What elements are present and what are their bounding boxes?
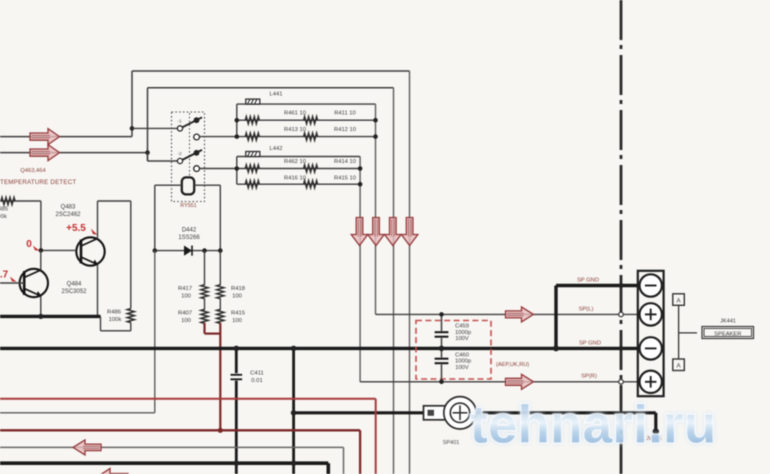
wire Q483 emitter xyxy=(97,265,99,317)
svg-text:R486: R486 xyxy=(107,310,122,316)
svg-text:SP GND: SP GND xyxy=(577,278,599,284)
svg-text:100: 100 xyxy=(181,294,192,300)
speaker SP401 xyxy=(424,397,477,429)
wire L441 top rail xyxy=(237,104,376,314)
svg-text:L442: L442 xyxy=(270,146,283,152)
wire SP GND bus thick xyxy=(0,347,639,350)
watermark tehnari.ru xyxy=(470,396,716,455)
wire speaker branch thick xyxy=(294,348,424,474)
node chain to red bus xyxy=(218,428,223,433)
node L442 A1 xyxy=(235,166,240,171)
wire rail 1 top xyxy=(132,71,410,474)
label D442 1SS266 xyxy=(178,228,200,242)
wire L442 top rail xyxy=(237,157,360,382)
label RY551 xyxy=(180,203,196,209)
svg-text:Q484: Q484 xyxy=(67,282,82,288)
terminal 4 plus xyxy=(640,371,662,393)
svg-text:100: 100 xyxy=(232,318,243,324)
svg-text:L441: L441 xyxy=(270,92,283,98)
svg-text:R417: R417 xyxy=(178,286,192,292)
node C460 bottom xyxy=(439,380,444,385)
label Q483 2SC2462 xyxy=(55,205,81,219)
node D442 left xyxy=(153,248,158,253)
node C459 top xyxy=(439,312,444,317)
svg-text:100: 100 xyxy=(232,294,243,300)
svg-text:Q483: Q483 xyxy=(61,205,76,211)
label Q484 2SC3052 xyxy=(61,282,87,296)
svg-text:C411: C411 xyxy=(250,371,264,377)
resistor R414 10 xyxy=(304,159,356,172)
svg-text:-1: -1 xyxy=(177,119,182,125)
svg-text:R461 10: R461 10 xyxy=(284,111,306,117)
wire key link xyxy=(679,305,697,359)
resistor R415 100 xyxy=(217,309,246,324)
wire L441 row1 xyxy=(237,119,376,121)
node junction rail2/input xyxy=(145,150,150,155)
wire SP(L) xyxy=(376,313,639,315)
arrow bus 3 left xyxy=(73,440,101,455)
resistor R462 10 xyxy=(245,159,306,172)
board boundary dashed line xyxy=(620,0,623,474)
arrow connector pin 3 down xyxy=(385,218,402,246)
svg-text:(AEP,UK,RU): (AEP,UK,RU) xyxy=(496,362,529,368)
label JW401 xyxy=(646,436,662,442)
transistor Q483 2SC2462 xyxy=(76,237,104,265)
wire Q483 base xyxy=(41,201,75,250)
label TEMPERATURE DETECT xyxy=(0,179,76,186)
node L441 B2 xyxy=(373,134,378,139)
wire input L (from amplifier) xyxy=(0,136,132,138)
arrow connector pin 1 down xyxy=(351,218,368,246)
svg-text:R414 10: R414 10 xyxy=(334,159,356,165)
relay RY551 dashed box xyxy=(172,112,205,202)
svg-text:100k: 100k xyxy=(0,214,7,220)
node crossing t2 xyxy=(619,312,624,317)
wire chain right top xyxy=(219,251,221,286)
label AEP UK RU xyxy=(496,362,529,368)
svg-text:R462 10: R462 10 xyxy=(284,159,306,165)
svg-text:SP401: SP401 xyxy=(443,440,460,446)
svg-text:tehnari.ru: tehnari.ru xyxy=(470,396,716,455)
svg-text:C460: C460 xyxy=(455,352,469,358)
wire relay coil left pin xyxy=(155,185,182,250)
wire C411 branch xyxy=(235,348,238,474)
wire SP GND terminal 1 thick xyxy=(556,286,639,349)
arrow signal flow input L xyxy=(30,129,60,145)
inductor L441 xyxy=(246,99,260,104)
wire relay drive xyxy=(0,251,155,413)
wire Q484 emitter xyxy=(40,296,42,316)
svg-text:C459: C459 xyxy=(455,324,469,330)
node bottom bus junction a xyxy=(234,460,240,466)
wire C459/C460 branch xyxy=(441,314,443,381)
resistor R412 10 xyxy=(304,127,356,140)
capacitor C460 1000p xyxy=(435,352,471,371)
wire R485 net xyxy=(0,200,41,202)
relay contact -1 xyxy=(177,117,202,140)
key box A bottom xyxy=(673,359,685,371)
svg-text:100k: 100k xyxy=(109,317,122,323)
terminal 3 minus xyxy=(640,337,662,359)
wire L441 row2 (from contact -1) xyxy=(200,136,376,138)
wire dark red bus 2 xyxy=(0,430,360,474)
label JK441 xyxy=(720,319,736,325)
svg-text:Q463,464: Q463,464 xyxy=(20,168,46,174)
node junction rail1/input xyxy=(130,126,135,131)
svg-text:100: 100 xyxy=(181,318,192,324)
node L441 A1 xyxy=(235,118,240,123)
label SP GND 2 xyxy=(579,341,601,347)
node SP GND bus junction xyxy=(553,345,559,351)
label L442 xyxy=(270,146,283,152)
wire SP(R) xyxy=(360,381,638,383)
svg-text:R415: R415 xyxy=(231,311,246,317)
node bottom bus junction b xyxy=(291,460,297,466)
wire rail 2 top xyxy=(148,88,394,474)
node L442 B2 xyxy=(358,182,363,187)
node C411 top xyxy=(234,346,240,352)
label SPEAKER boxed xyxy=(702,327,754,339)
svg-text:1000p: 1000p xyxy=(455,330,471,336)
wire SP401 to jumper thick xyxy=(476,413,659,435)
wire relay -2 jog xyxy=(148,153,178,161)
node D442 right b xyxy=(218,248,223,253)
svg-text:R413 10: R413 10 xyxy=(284,127,306,133)
resistor R411 10 xyxy=(304,111,356,124)
terminal 2 plus xyxy=(640,303,662,325)
wire gray bus 3 xyxy=(0,447,344,474)
wire chain right mid xyxy=(219,298,221,310)
label SP(L) xyxy=(579,307,594,313)
svg-text:R411 10: R411 10 xyxy=(334,111,356,117)
svg-text:R485: R485 xyxy=(0,207,9,213)
wire chain left mid xyxy=(204,298,206,310)
arrow bottom partial xyxy=(97,469,128,474)
svg-text:RY551: RY551 xyxy=(180,203,196,209)
resistor R417 100 xyxy=(178,285,208,300)
node D442 right a xyxy=(202,248,207,253)
resistor R485 100k xyxy=(0,197,15,220)
node crossing t3 xyxy=(619,346,624,351)
wire bottom thick bus xyxy=(0,463,328,474)
diode D442 1SS266 xyxy=(184,246,192,256)
svg-text:R418: R418 xyxy=(231,286,246,292)
svg-text:0: 0 xyxy=(26,239,32,250)
svg-text:R412 10: R412 10 xyxy=(334,127,356,133)
svg-text:100V: 100V xyxy=(455,336,469,342)
node Q483 base / Q484 collector xyxy=(39,248,44,253)
wire emitter bus thick xyxy=(0,315,101,318)
arrow connector pin 4 down xyxy=(401,218,418,246)
svg-text:1SS266: 1SS266 xyxy=(178,235,200,241)
wire chain left top xyxy=(204,251,206,286)
key box A top xyxy=(673,294,685,306)
wire input R (from amplifier) xyxy=(0,152,148,154)
node crossing t4 xyxy=(619,380,624,385)
wire red bus 1 xyxy=(0,399,376,474)
wire relay coil right pin xyxy=(194,185,220,250)
arrow SP(L) flow xyxy=(506,307,534,322)
transistor Q484 2SC3052 xyxy=(20,269,48,297)
node C459/C460 mid xyxy=(439,346,445,352)
wire Q484 base xyxy=(0,282,24,284)
resistor R486 100k xyxy=(107,309,134,323)
label .7 voltage xyxy=(0,270,17,282)
resistor R413 10 xyxy=(245,127,306,140)
label +5.5 voltage xyxy=(66,223,97,235)
svg-text:100V: 100V xyxy=(455,365,469,371)
svg-text:JK441: JK441 xyxy=(720,319,736,325)
capacitor C459 1000p xyxy=(435,324,471,343)
resistor R407 100 xyxy=(178,309,208,324)
svg-text:1000p: 1000p xyxy=(455,359,471,365)
resistor R461 10 xyxy=(245,111,306,124)
node crossing t1 xyxy=(619,283,624,288)
svg-text:+5.5: +5.5 xyxy=(66,223,86,234)
label Q463,464 xyxy=(20,168,46,174)
terminal 1 minus xyxy=(640,274,662,296)
svg-text:D442: D442 xyxy=(182,228,197,234)
label L441 xyxy=(270,92,283,98)
capacitor C411 0.01 xyxy=(231,371,264,385)
svg-text:-2: -2 xyxy=(177,151,182,157)
relay contact -2 xyxy=(177,150,202,172)
svg-text:.7: .7 xyxy=(0,270,9,281)
svg-text:R416 10: R416 10 xyxy=(284,176,306,182)
arrow signal flow input R xyxy=(30,145,60,161)
wire to relay contact -1 xyxy=(132,127,178,129)
resistor R418 100 xyxy=(217,285,246,300)
node speaker branch mid xyxy=(291,410,297,416)
connector JK441 block xyxy=(638,271,664,396)
wire Q483 collector xyxy=(98,201,131,309)
wire Q484 collector xyxy=(40,250,42,270)
wire chain merge dark red xyxy=(205,323,221,430)
svg-text:0.01: 0.01 xyxy=(251,378,262,384)
svg-text:SP GND: SP GND xyxy=(579,341,601,347)
svg-text:2SC3052: 2SC3052 xyxy=(61,289,87,295)
svg-text:SPEAKER: SPEAKER xyxy=(714,331,741,337)
node L441 A2 xyxy=(235,134,240,139)
wire L442 row2 xyxy=(237,183,360,185)
node Q484 emitter junction xyxy=(38,314,43,319)
node L442 B1 xyxy=(358,166,363,171)
wire R486 bottom loop xyxy=(101,316,131,330)
inductor L442 xyxy=(246,152,260,157)
node speaker branch top xyxy=(291,346,297,352)
label SP GND 1 xyxy=(577,278,599,284)
wire L442 row1 (from contact -2) xyxy=(200,168,361,170)
svg-text:2SC2462: 2SC2462 xyxy=(55,212,81,218)
resistor R415b 10 xyxy=(304,176,356,188)
svg-text:SP(R): SP(R) xyxy=(581,374,597,380)
arrow SP(R) flow xyxy=(506,374,534,389)
svg-text:TEMPERATURE DETECT: TEMPERATURE DETECT xyxy=(0,179,76,186)
svg-text:R407: R407 xyxy=(178,311,192,317)
label SP401 xyxy=(443,440,460,446)
relay coil RY551 xyxy=(182,177,194,194)
resistor R416 10 xyxy=(245,176,306,188)
label SP(R) xyxy=(581,374,597,380)
node L441 B1 xyxy=(373,118,378,123)
wire D442 net xyxy=(155,250,221,252)
svg-text:SP(L): SP(L) xyxy=(579,307,594,313)
capacitor option dashed box xyxy=(416,321,491,380)
arrow connector pin 2 down xyxy=(368,218,385,246)
svg-text:R415 10: R415 10 xyxy=(334,176,356,182)
label 0 voltage xyxy=(26,239,39,251)
